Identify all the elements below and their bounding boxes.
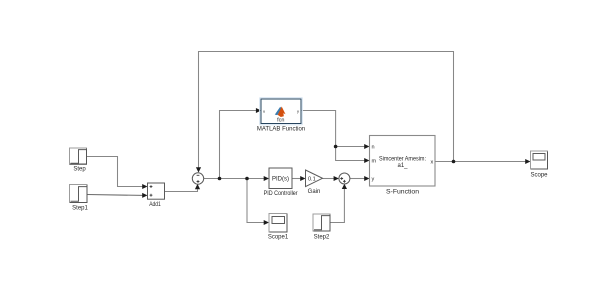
svg-text:Step1: Step1 [72, 206, 88, 212]
svg-text:Add1: Add1 [149, 202, 161, 208]
svg-text:Simcenter Amesim:: Simcenter Amesim: [379, 156, 426, 162]
svg-text:y: y [372, 177, 375, 183]
svg-text:Step2: Step2 [314, 234, 330, 240]
svg-text:n: n [372, 144, 375, 150]
svg-text:MATLAB Function: MATLAB Function [257, 127, 305, 133]
svg-text:Gain: Gain [308, 189, 321, 195]
svg-text:fcn: fcn [277, 118, 284, 124]
svg-text:PID(s): PID(s) [272, 176, 289, 182]
svg-text:u: u [263, 108, 265, 113]
svg-text:S-Function: S-Function [386, 190, 419, 196]
svg-text:Scope: Scope [530, 172, 548, 178]
svg-text:a1_: a1_ [397, 163, 408, 169]
svg-text:x: x [430, 159, 433, 165]
svg-text:Scope1: Scope1 [268, 234, 289, 240]
svg-text:Step: Step [73, 167, 86, 173]
svg-text:m: m [372, 159, 377, 165]
svg-text:PID Controller: PID Controller [264, 191, 298, 197]
svg-text:y: y [297, 108, 299, 113]
svg-text:0.1: 0.1 [308, 176, 316, 182]
